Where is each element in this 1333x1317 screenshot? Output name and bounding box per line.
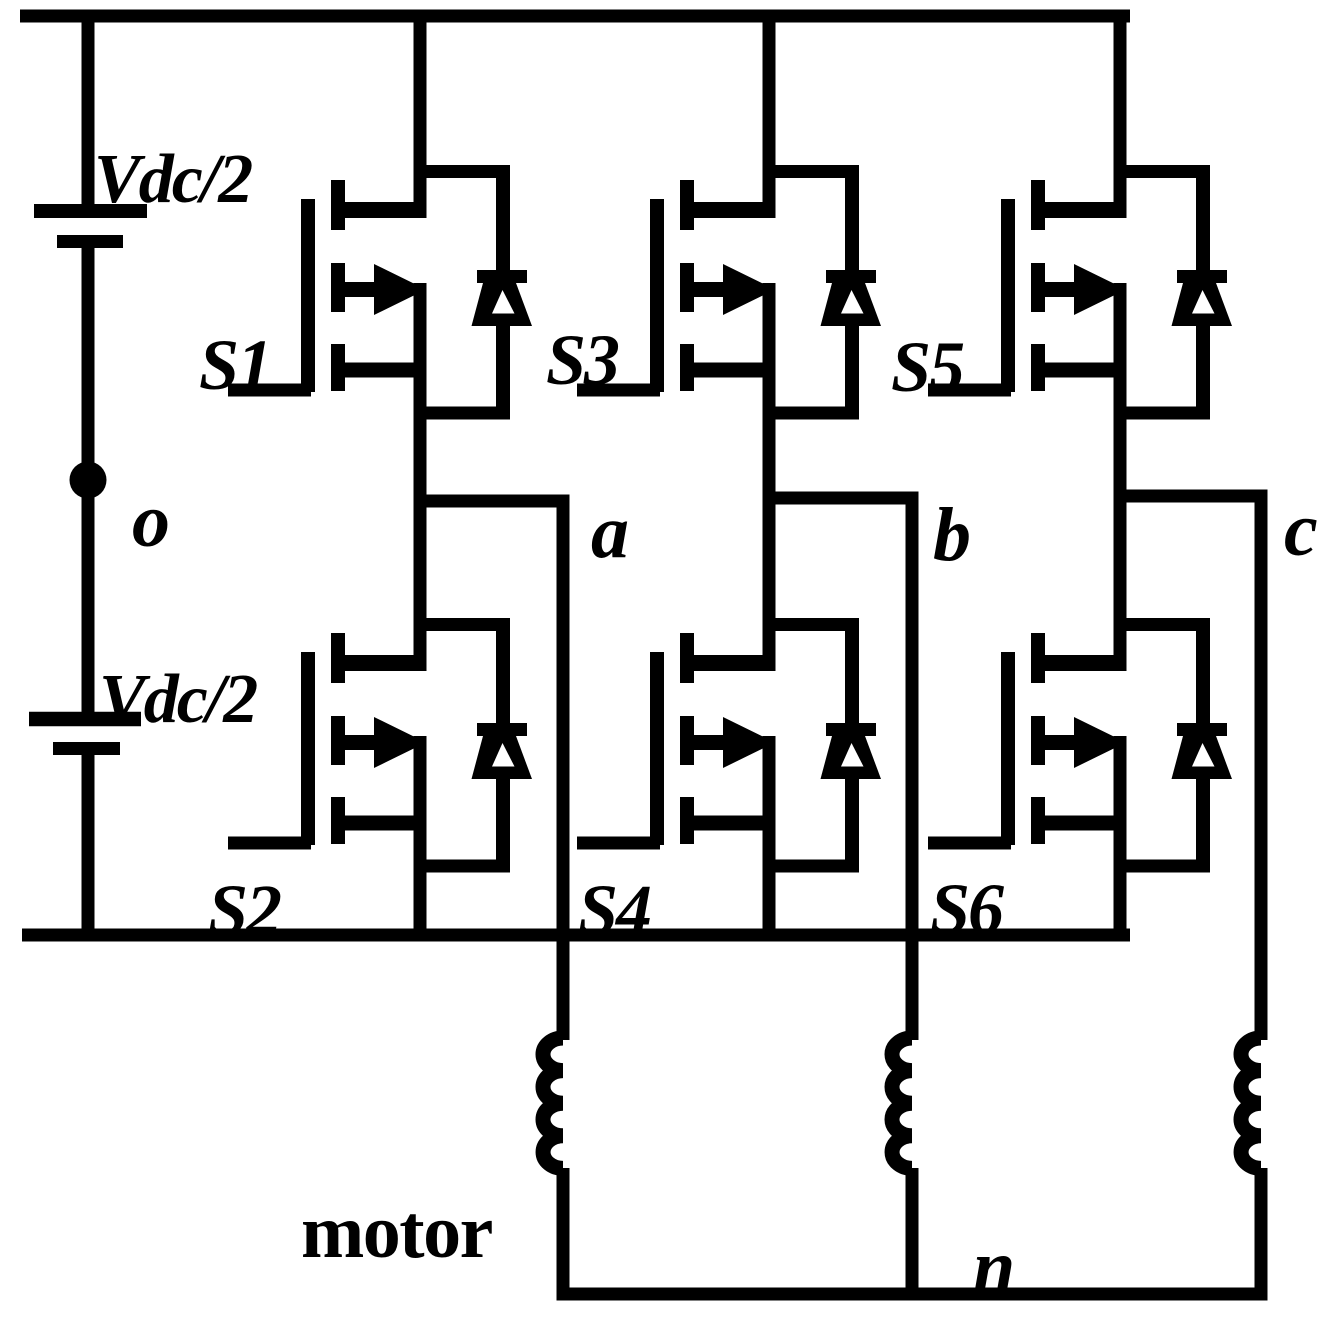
- battery B2 (lower Vdc/2 source): [29, 712, 141, 755]
- wire: phase a winding to neutral bus: [557, 1168, 570, 1301]
- svg-text:Vdc/2: Vdc/2: [99, 661, 257, 738]
- inductor: motor winding phase a: [543, 1038, 563, 1168]
- wire: S1 source down to phase node: [414, 283, 427, 508]
- svg-text:motor: motor: [301, 1190, 493, 1274]
- wire: motor neutral bus (node n): [557, 1288, 1268, 1301]
- wire: S4 source to bottom rail: [763, 736, 776, 935]
- wire: battery B2 negative to bottom rail: [82, 755, 95, 935]
- wire: S3 source down to phase node: [763, 283, 776, 508]
- node o (DC-link midpoint junction dot): [70, 462, 107, 499]
- transistor S2 (lower N-MOSFET): [228, 633, 427, 850]
- diode D6 (anti-parallel with S6): [1114, 618, 1233, 873]
- transistor S6 (lower N-MOSFET): [928, 633, 1127, 850]
- diode D4 (anti-parallel with S4): [763, 618, 882, 873]
- svg-text:n: n: [973, 1225, 1015, 1309]
- wire: phase c vertical down to motor winding: [1255, 490, 1268, 1041]
- svg-text:S4: S4: [578, 870, 650, 950]
- svg-text:Vdc/2: Vdc/2: [94, 141, 252, 218]
- wire: S1 drain to top bus: [414, 16, 427, 218]
- svg-text:S6: S6: [930, 869, 1004, 949]
- svg-text:a: a: [591, 490, 629, 574]
- wire: phase a horizontal from leg midpoint: [414, 495, 570, 508]
- wire: phase c horizontal from leg midpoint: [1114, 490, 1268, 503]
- diode D1 (anti-parallel with S1): [414, 165, 533, 420]
- inductor: motor winding phase c: [1241, 1038, 1261, 1168]
- wire: top bus to battery B1 positive plate: [82, 16, 95, 205]
- svg-text:S1: S1: [199, 325, 271, 405]
- svg-text:o: o: [132, 479, 170, 563]
- wire: S6 source to bottom rail: [1114, 736, 1127, 935]
- diode D5 (anti-parallel with S5): [1114, 165, 1233, 420]
- wire: phase b horizontal from leg midpoint: [763, 492, 919, 505]
- svg-text:S2: S2: [208, 870, 281, 950]
- wire: S2 source to bottom rail: [414, 736, 427, 935]
- svg-text:S3: S3: [546, 320, 619, 400]
- diode D2 (anti-parallel with S2): [414, 618, 533, 873]
- wire: battery B1 negative to node o: [82, 248, 95, 474]
- wire: S5 source down to phase node: [1114, 283, 1127, 508]
- svg-text:S5: S5: [891, 327, 964, 407]
- wire: phase a vertical down to motor winding: [557, 495, 570, 1041]
- wire: S6 drain up to phase node: [1114, 501, 1127, 671]
- svg-text:c: c: [1284, 488, 1318, 572]
- transistor S5 (upper N-MOSFET): [928, 180, 1127, 397]
- wire: positive DC bus (top rail): [20, 10, 1130, 23]
- diode D3 (anti-parallel with S3): [763, 165, 882, 420]
- wire: S2 drain up to phase node: [414, 501, 427, 671]
- wire: S5 drain to top bus: [1114, 16, 1127, 218]
- inductor: motor winding phase b: [892, 1038, 912, 1168]
- transistor S3 (upper N-MOSFET): [577, 180, 776, 397]
- wire: negative DC bus (bottom rail): [22, 929, 1130, 942]
- wire: phase b winding to neutral bus: [906, 1168, 919, 1301]
- wire: phase b vertical down to motor winding: [906, 492, 919, 1041]
- transistor S1 (upper N-MOSFET): [228, 180, 427, 397]
- transistor S4 (lower N-MOSFET): [577, 633, 776, 850]
- svg-text:b: b: [933, 493, 971, 577]
- wire: phase c winding to neutral bus: [1255, 1168, 1268, 1301]
- wire: S3 drain to top bus: [763, 16, 776, 218]
- wire: S4 drain up to phase node: [763, 501, 776, 671]
- battery B1 (upper Vdc/2 source): [34, 204, 147, 248]
- wire: node o to battery B2 positive plate: [82, 486, 95, 712]
